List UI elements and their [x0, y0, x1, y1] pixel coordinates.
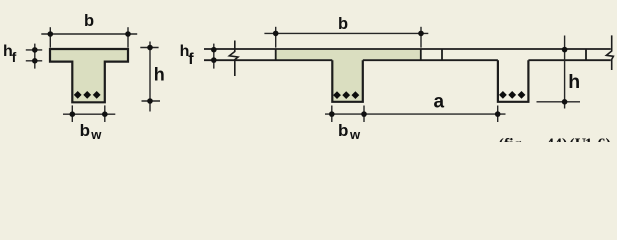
svg-text:b: b: [84, 12, 94, 30]
svg-text:f: f: [12, 49, 17, 65]
svg-text:f: f: [188, 51, 194, 68]
svg-text:6): 6): [598, 136, 611, 142]
svg-text:b: b: [338, 121, 348, 140]
svg-text:w: w: [90, 127, 102, 142]
svg-text:b: b: [338, 15, 348, 33]
svg-text:w: w: [349, 127, 361, 142]
svg-text:44): 44): [546, 136, 567, 142]
svg-text:a: a: [434, 92, 445, 113]
svg-text:(fig.: (fig.: [499, 136, 526, 142]
svg-text:1: 1: [585, 136, 593, 142]
svg-text:h: h: [568, 71, 580, 93]
svg-text:h: h: [154, 64, 165, 84]
svg-text:b: b: [80, 121, 90, 140]
